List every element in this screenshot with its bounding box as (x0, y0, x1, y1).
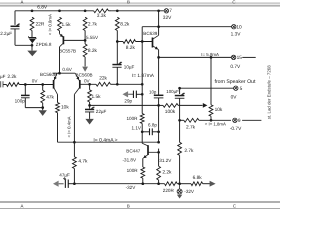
svg-text:-0.7V: -0.7V (230, 126, 242, 132)
input coupling cap (clipped at edge) (0, 74, 6, 88)
resistor R 8.2k (right divider) (115, 17, 129, 30)
wire BC639 collector to rail (158, 11, 160, 36)
signal arrow (output, bottom left) (53, 181, 64, 187)
wire to terminal 5 (180, 87, 234, 89)
junction top rail x=85.1 (84, 9, 87, 12)
svg-text:100R: 100R (127, 168, 139, 173)
junction 2.7k tap (178, 119, 181, 122)
svg-text:7: 7 (169, 8, 172, 14)
capacitor C 2.2uF (electrolytic) (0, 24, 20, 36)
terminal 15 (0.7V) (230, 55, 242, 70)
wire 22uF to ground (89, 112, 91, 119)
svg-text:B: B (127, 203, 130, 208)
resistor R 2.7k (to terminal 9) (180, 118, 199, 130)
svg-text:22k: 22k (99, 76, 107, 82)
transistor Q BC557B (59, 34, 76, 54)
resistor R 2.7k (left divider) (83, 17, 97, 30)
wire 2.2k to rail (158, 180, 160, 184)
capacitor C 47uF (59, 173, 70, 188)
svg-text:10k: 10k (61, 105, 69, 111)
wire 10p bottom (158, 98, 160, 141)
wire 1.5k to emitter (59, 31, 61, 34)
svg-text:6.8p: 6.8p (148, 123, 157, 128)
svg-text:3.3k: 3.3k (97, 13, 107, 19)
svg-text:0V: 0V (84, 79, 91, 84)
node label -31.2V (158, 158, 172, 163)
junction collector line (157, 25, 160, 28)
svg-text:-31.2V: -31.2V (158, 158, 172, 163)
svg-text:st. Lad der Endstufe – 7268: st. Lad der Endstufe – 7268 (266, 65, 271, 120)
svg-text:4.7k: 4.7k (78, 159, 88, 165)
rail label -32V (126, 185, 137, 190)
svg-text:1.5k: 1.5k (62, 22, 72, 28)
ground (input network) (39, 110, 47, 116)
resistor R 4.7k (73, 157, 89, 169)
terminal 5 (0V) (231, 86, 243, 100)
transistor Q BC639 (143, 31, 158, 50)
svg-text:BC560B: BC560B (40, 72, 57, 77)
ground (zener/input) (27, 51, 37, 57)
border frame bottom (0, 202, 280, 208)
wire output to terminal 15 (159, 56, 232, 58)
wire 8.2k to supply arrow (84, 57, 86, 66)
wire left branch down from rail (14, 11, 16, 25)
svg-text:32V: 32V (163, 15, 172, 21)
svg-text:BC557B: BC557B (59, 48, 76, 53)
svg-text:5.55V: 5.55V (86, 35, 99, 40)
svg-text:47µF: 47µF (59, 173, 70, 178)
junction divider node (116, 40, 119, 43)
junction output/emitter (157, 56, 160, 59)
svg-text:100R: 100R (127, 116, 139, 121)
wire 100k to 10k (178, 104, 202, 106)
svg-text:0V: 0V (32, 78, 39, 83)
svg-text:BC447: BC447 (126, 148, 140, 153)
ground (22uF) (85, 119, 93, 125)
wire 2.7k to rail (179, 155, 181, 183)
resistor R 10k (right) (209, 57, 223, 116)
resistor R 1.5k (feedback shunt) (88, 84, 101, 102)
junction 47k tap (41, 83, 44, 86)
svg-text:B: B (127, 0, 130, 4)
resistor R 22k (96, 76, 111, 87)
resistor R 100k (159, 104, 179, 115)
wire BC557B collector down to tail (59, 47, 61, 73)
svg-text:I= 1.87mA: I= 1.87mA (132, 73, 155, 79)
capacitor C 29p (124, 91, 136, 104)
terminal 10 (1.3V) (231, 25, 242, 38)
svg-text:ZPD6.8: ZPD6.8 (36, 42, 52, 47)
wire stub right of terminal 15 (242, 56, 255, 58)
wire 10uF to 22k node (116, 67, 118, 84)
wire 2.7k to node (84, 31, 86, 45)
wire to terminal 9 (199, 119, 231, 121)
wire bottom rail (74, 183, 210, 185)
rail end arrow (210, 181, 216, 187)
svg-text:29p: 29p (124, 98, 132, 103)
wire BC557B base to 5.55V node (63, 39, 85, 41)
svg-text:< I= 0.8mA: < I= 0.8mA (48, 14, 53, 35)
wire 1.5k to 22uF node (89, 102, 91, 109)
terminal 9 (-0.7V) (230, 118, 262, 132)
wire 2.2uF bottom to corner (15, 29, 32, 45)
resistor R 6.8k (series in rail) (191, 175, 203, 186)
capacitor C 22uF (electrolytic) (85, 107, 107, 114)
wire feedback vertical (base line) (141, 27, 143, 114)
junction zener bottom (31, 44, 34, 47)
svg-text:0.6V: 0.6V (62, 67, 72, 72)
resistor R 100R (upper) (127, 114, 145, 124)
svg-text:< I= 0.4mA: < I= 0.4mA (66, 116, 71, 137)
text from Speaker Out (215, 79, 256, 85)
wire 100uF vertical top (179, 88, 181, 94)
svg-text:100p: 100p (15, 99, 26, 104)
resistor R 1.5k (current source) (58, 17, 72, 31)
resistor R 3.3k (series in top rail) (94, 9, 111, 19)
capacitor C 10uF (electrolytic) (112, 62, 134, 70)
junction rail x=142.8 (141, 182, 144, 185)
transistor Q BC447 (126, 143, 158, 158)
svg-text:A: A (21, 203, 24, 208)
junction top rail x=117.3 (116, 9, 119, 12)
svg-text:0.7V: 0.7V (230, 64, 241, 70)
wire input to 2.2k (3, 84, 6, 86)
svg-text:-31.8V: -31.8V (123, 158, 137, 163)
svg-text:2.2k: 2.2k (7, 74, 17, 80)
wire zener to ground node (31, 43, 33, 50)
junction feedback node (88, 104, 91, 107)
svg-text:8.2k: 8.2k (120, 21, 130, 27)
wire BC447 emitter down (142, 158, 144, 167)
supply arrow (negative rail) below 8.2k (82, 67, 88, 72)
junction feedback/10p (157, 104, 160, 107)
svg-text:22R: 22R (36, 22, 45, 28)
svg-text:10p: 10p (149, 90, 157, 95)
node 6.8V label (37, 5, 48, 11)
wire BC639 emitter down (158, 50, 160, 58)
current label I=1.87mA (132, 73, 155, 79)
supply terminal -32V (177, 184, 195, 199)
current label I=1.8mA (205, 122, 226, 127)
wire 29p to vertical (136, 93, 142, 95)
wire 10k bottom (210, 116, 212, 120)
svg-text:A: A (21, 0, 24, 4)
junction tail rail right end (157, 141, 160, 144)
wire to terminal 10 (142, 26, 231, 28)
current label I=5.8mA (201, 52, 219, 57)
transistor Q2 BC560B (right) (74, 72, 92, 94)
junction top rail x=59.5 (58, 9, 61, 12)
node label 1.1V (132, 125, 142, 130)
svg-text:8.2k: 8.2k (126, 45, 136, 51)
capacitor C 10p (149, 57, 163, 98)
svg-text:1.5k: 1.5k (92, 94, 102, 100)
resistor R 220R (series in rail) (163, 182, 177, 193)
svg-text:8.2k: 8.2k (88, 48, 98, 54)
svg-text:2.2µF: 2.2µF (0, 31, 12, 36)
svg-text:9: 9 (238, 118, 241, 124)
svg-text:BC560B: BC560B (76, 72, 93, 77)
base label 0V right (84, 79, 91, 84)
svg-text:-32V: -32V (126, 185, 137, 190)
svg-text:0V: 0V (231, 94, 238, 100)
junction BC639 base (141, 40, 144, 43)
svg-text:1.3V: 1.3V (231, 32, 242, 38)
terminal 7 (32V) (163, 8, 173, 21)
wire 100R2 to rail (142, 178, 144, 184)
svg-text:6.8V: 6.8V (37, 5, 48, 11)
base label 0V left (32, 78, 39, 83)
resistor R 10k (left load) (56, 103, 70, 113)
junction 100uF top (0, 0, 1, 1)
junction 22k line (141, 83, 144, 86)
border frame top (0, 0, 280, 6)
capacitor C 6.8p (142, 123, 158, 136)
svg-text:6.8k: 6.8k (193, 175, 203, 181)
svg-text:10k: 10k (215, 107, 223, 113)
svg-text:10µF: 10µF (124, 65, 135, 70)
resistor R 8.2k (horizontal, to BC639 base) (117, 40, 152, 51)
caption (rotated) (266, 65, 271, 120)
svg-text:2.2k: 2.2k (162, 170, 172, 176)
junction top rail x=32 (31, 9, 34, 12)
resistor R 2.2k (input) (6, 74, 19, 87)
junction 100p tap (24, 83, 27, 86)
wire 2.2k to base (19, 84, 53, 86)
resistor R 22R (30, 17, 45, 30)
junction speaker tap (178, 87, 181, 90)
svg-text:2.7k: 2.7k (184, 148, 194, 154)
junction collector/tail rail (73, 141, 76, 144)
junction BC447 base (157, 151, 160, 154)
svg-text:C: C (233, 203, 236, 208)
tail rail (I=0.4mA) (58, 113, 159, 144)
svg-text:47k: 47k (46, 95, 54, 101)
wire 100p/47k bottom (25, 103, 42, 110)
resistor R 100R (emitter) (127, 167, 145, 178)
svg-text:< I= 1,8mA: < I= 1,8mA (205, 122, 226, 127)
svg-text:from Speaker Out: from Speaker Out (215, 79, 256, 85)
node label -31.8V (123, 158, 137, 163)
wire right collector down (73, 94, 75, 156)
wire right base node (80, 83, 96, 85)
wire 22k to 10uF node (111, 83, 118, 85)
resistor R 47k (41, 85, 55, 103)
svg-text:-32V: -32V (184, 189, 195, 194)
junction right base (88, 83, 91, 86)
wire 22R to zener (31, 31, 33, 38)
svg-text:22µF: 22µF (96, 109, 107, 114)
junction rail x=158.6 (157, 182, 160, 185)
resistor R 2.2k (collector load) (157, 149, 172, 180)
current label I=0.8mA (48, 14, 53, 35)
wire 4.7k to rail (73, 169, 75, 184)
junction 22k/10uF node (116, 83, 119, 86)
junction rail x=74.4 (73, 182, 76, 185)
svg-text:2.7k: 2.7k (88, 21, 98, 27)
transistor Q1 BC560B (left) (40, 72, 58, 94)
svg-text:15: 15 (237, 55, 243, 61)
wire feedback horizontal (90, 104, 159, 106)
resistor R 2.7k (load) (178, 142, 194, 155)
wire top supply rail (15, 10, 164, 12)
junction 5.55V node (84, 35, 99, 42)
svg-text:100µF: 100µF (166, 89, 179, 94)
junction 6.8p left (141, 130, 144, 133)
wire 22k node to feedback vertical (117, 83, 142, 85)
svg-text:2.7k: 2.7k (186, 124, 196, 130)
zener D ZPD6.8 (29, 36, 52, 47)
svg-text:C: C (232, 0, 235, 4)
wire tail (53, 72, 75, 74)
wire 8.2k to divider node (116, 31, 118, 65)
junction output line x=211 (210, 56, 213, 59)
signal arrow (from previous stage) (123, 91, 134, 97)
svg-text:10: 10 (236, 25, 242, 31)
svg-text:I= 0.4mA >: I= 0.4mA > (93, 137, 117, 143)
capacitor C 100uF (electrolytic) (166, 89, 185, 98)
junction 6.8p right (157, 130, 160, 133)
junction 10k bottom (210, 119, 213, 122)
current label vertical I=0.4mA (66, 116, 71, 137)
wire 47uF to rail (68, 183, 74, 185)
arrow into 10k node (203, 103, 208, 108)
wire BC560B left collector to 10k (57, 94, 59, 102)
svg-text:5: 5 (240, 86, 243, 92)
svg-text:100k: 100k (165, 109, 176, 115)
wire 100uF bottom (179, 98, 181, 142)
svg-text:1.1V: 1.1V (132, 125, 142, 130)
svg-text:220R: 220R (163, 188, 175, 193)
junction rail x=179.6 (178, 182, 181, 185)
junction tail 0.6V (58, 67, 73, 74)
resistor R 8.2k (below 5.55V) (83, 44, 97, 57)
wire 100R to collector (141, 124, 143, 144)
svg-text:BC639: BC639 (143, 31, 157, 36)
junction top rail x=158.6 (157, 9, 160, 12)
junction 29p node (141, 93, 144, 96)
junction 47k bottom (41, 106, 44, 109)
svg-text:µF: µF (0, 74, 6, 79)
capacitor C 100p (15, 85, 30, 108)
